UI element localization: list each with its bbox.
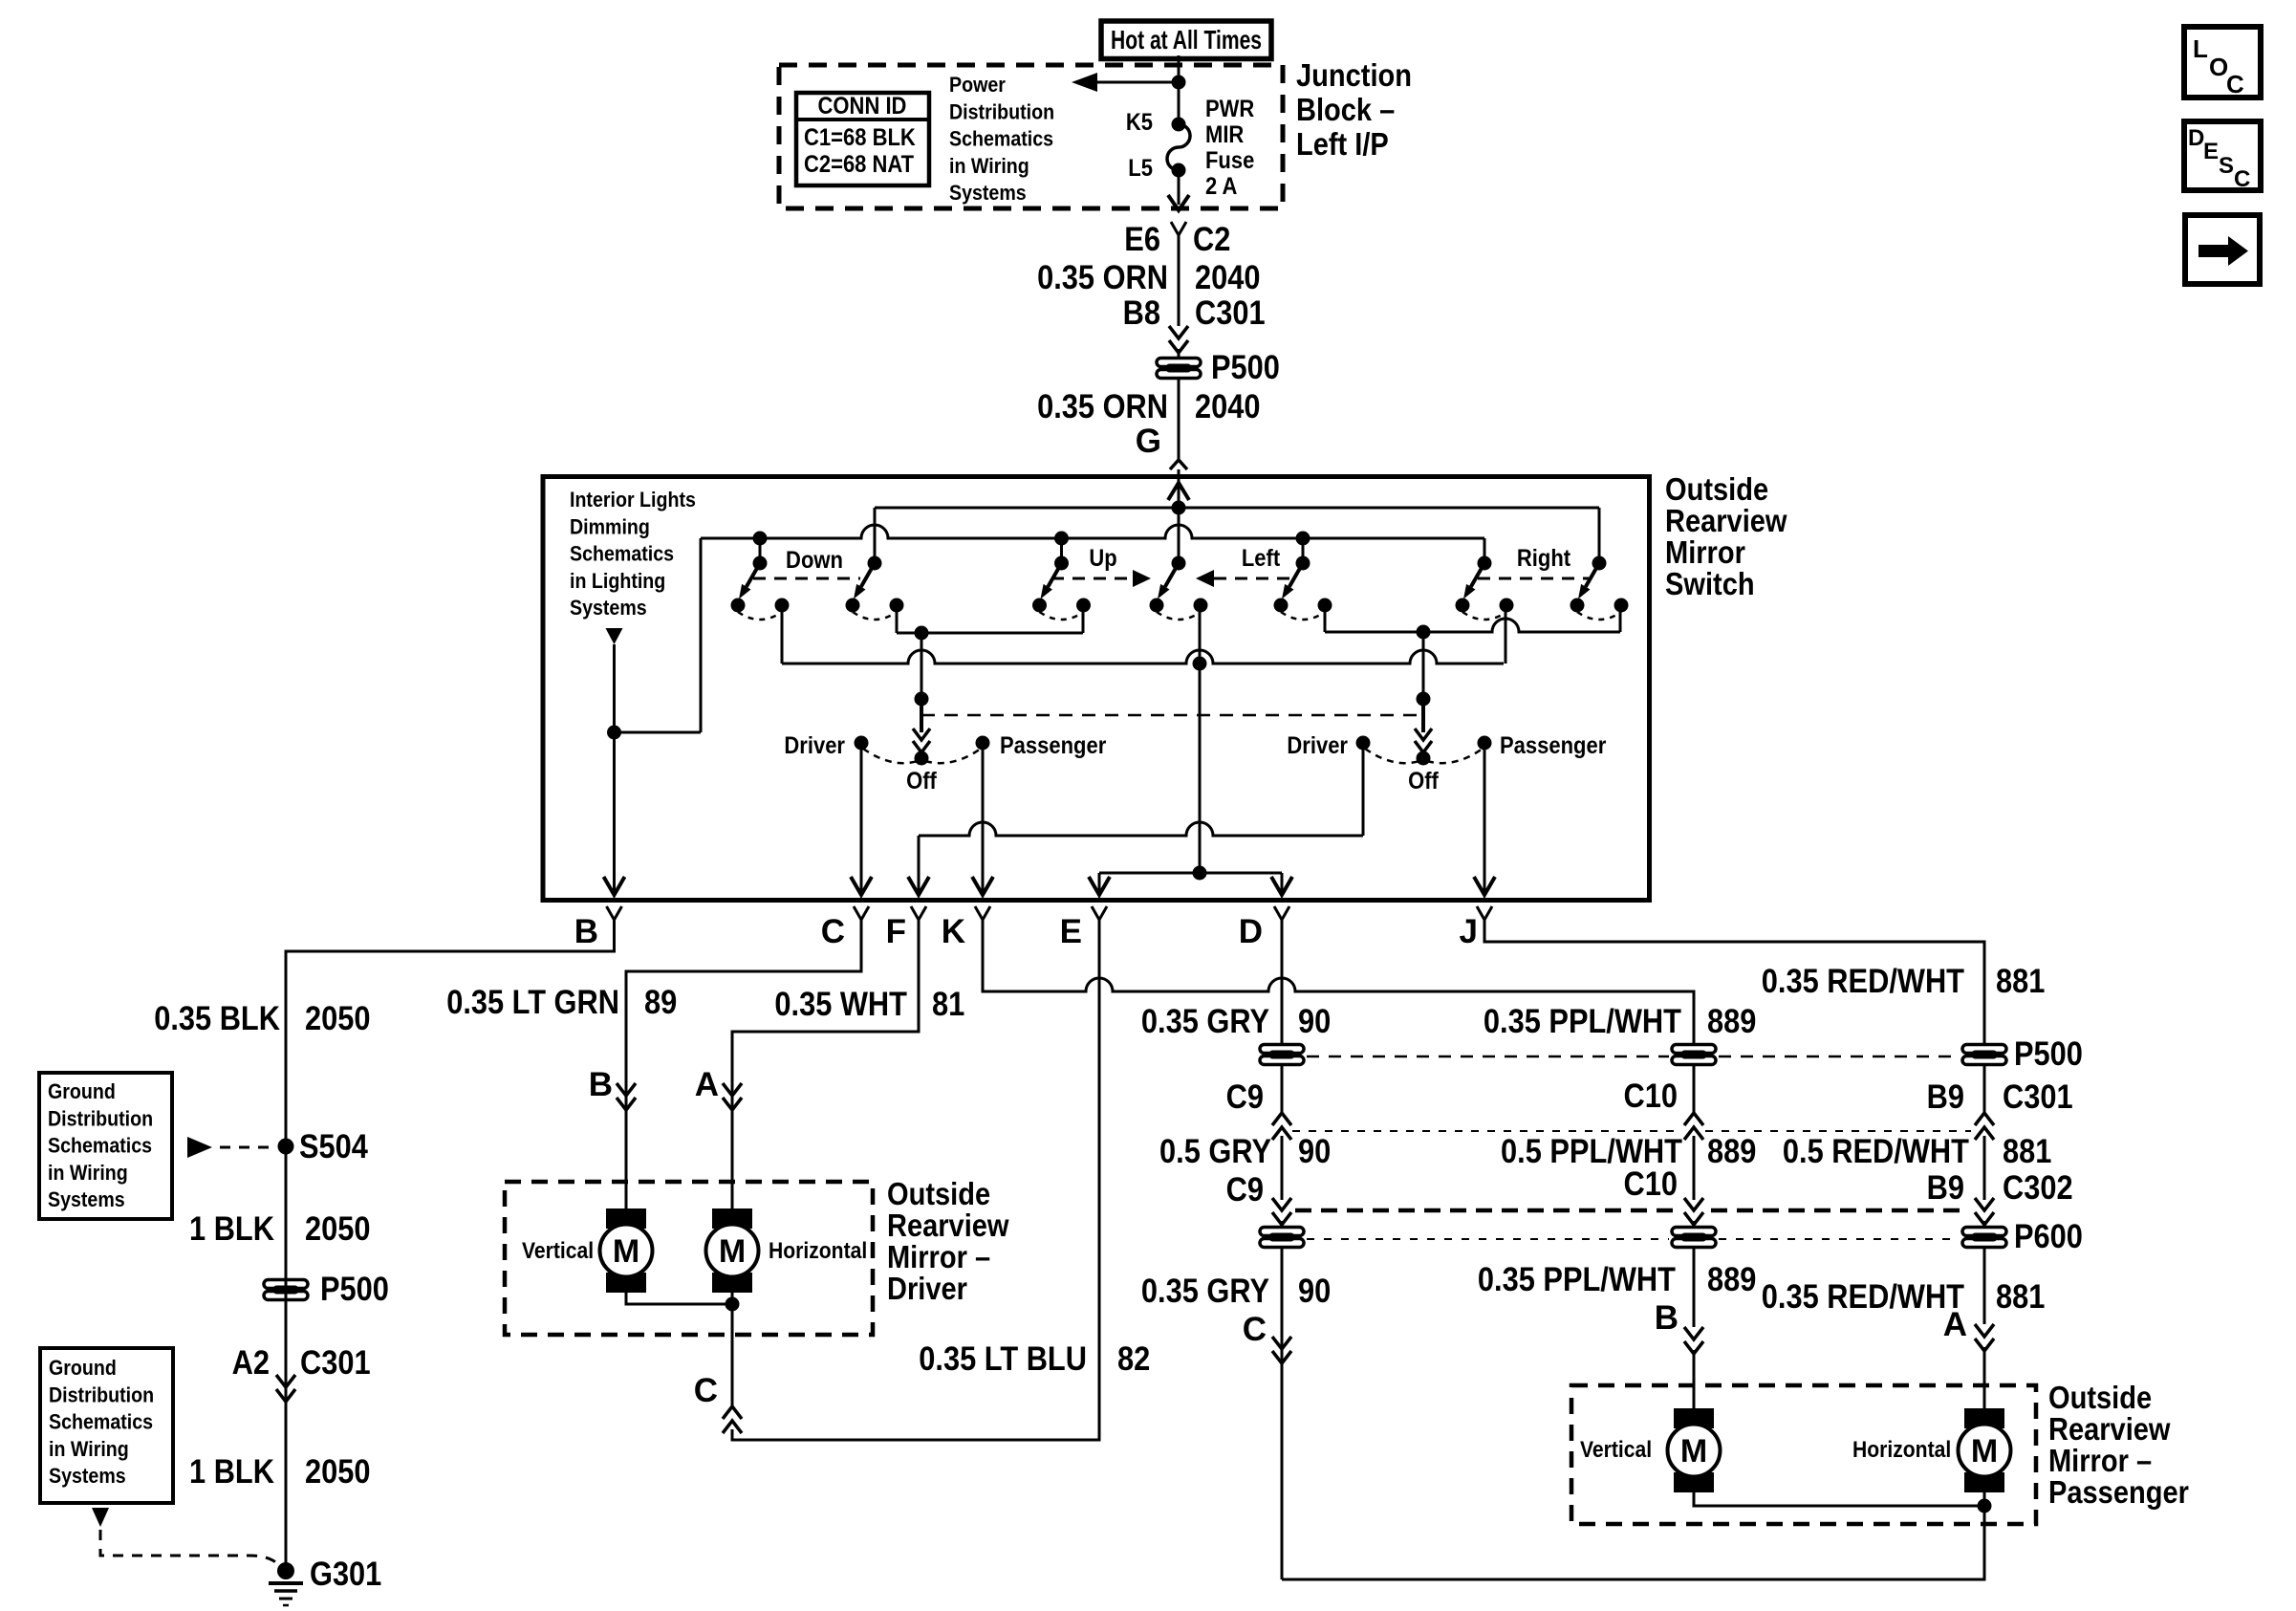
- svg-text:0.35 RED/WHT: 0.35 RED/WHT: [1762, 963, 1964, 1000]
- wire: Passenger contact to terminal K: [982, 743, 985, 896]
- svg-text:C301: C301: [2003, 1078, 2073, 1116]
- wire: upper bus line1: [875, 507, 1599, 510]
- svg-text:Systems: Systems: [949, 181, 1027, 205]
- linkage Up dashed: [1051, 577, 1133, 580]
- svg-text:Outside: Outside: [887, 1176, 990, 1211]
- svg-text:C9: C9: [1226, 1171, 1264, 1208]
- outside rearview mirror passenger dashed box: [1571, 1385, 2036, 1524]
- svg-text:Passenger: Passenger: [2048, 1474, 2189, 1510]
- connector P600 (RED/WHT): [1962, 1228, 2006, 1248]
- connector pin B chevrons: [1684, 1327, 1703, 1339]
- LOC icon box: [2184, 27, 2261, 98]
- arrow at terminal D: [1271, 877, 1292, 895]
- wire: 0.35 WHT 81: [732, 920, 919, 1208]
- svg-text:M: M: [613, 1233, 639, 1270]
- terminal C fork: [854, 906, 869, 920]
- wire: driver motors common: [626, 1293, 732, 1304]
- terminal E fork: [1092, 906, 1107, 920]
- svg-text:Off: Off: [906, 768, 937, 795]
- wire: Left-right right contact drop: [1324, 605, 1327, 632]
- contact Passenger right selector: [1478, 736, 1492, 751]
- wire: Passenger contact to terminal J: [1484, 743, 1486, 896]
- svg-text:Hot at All Times: Hot at All Times: [1111, 25, 1262, 54]
- switch blade center: [1150, 556, 1208, 620]
- svg-text:90: 90: [1298, 1273, 1331, 1310]
- svg-text:881: 881: [1996, 1278, 2045, 1316]
- svg-text:Junction: Junction: [1296, 57, 1412, 93]
- svg-text:Off: Off: [1408, 768, 1439, 795]
- wire: line2 riser to dimming feed: [700, 538, 703, 732]
- svg-text:Distribution: Distribution: [48, 1106, 153, 1130]
- wire: line1 to Right-right blade: [1598, 508, 1601, 563]
- svg-text:Down: Down: [786, 547, 843, 574]
- node: right selector feed tap: [1417, 625, 1431, 640]
- svg-text:Fuse: Fuse: [1205, 147, 1254, 174]
- svg-text:Interior Lights: Interior Lights: [570, 488, 696, 512]
- svg-text:in Lighting: in Lighting: [570, 569, 665, 593]
- svg-text:Block –: Block –: [1296, 92, 1395, 127]
- svg-text:Distribution: Distribution: [949, 99, 1054, 123]
- Hot at All Times box: [1101, 21, 1271, 59]
- svg-text:P500: P500: [1211, 349, 1280, 386]
- wire: [1693, 1136, 1696, 1200]
- svg-text:889: 889: [1707, 1003, 1756, 1040]
- connector C9 chevrons down: [1272, 1198, 1291, 1210]
- svg-text:PWR: PWR: [1205, 96, 1254, 122]
- wire: fuse output: [1178, 170, 1180, 205]
- svg-text:Schematics: Schematics: [49, 1410, 153, 1434]
- wire: junction to riser: [615, 731, 702, 734]
- svg-text:A: A: [1943, 1306, 1967, 1343]
- dashed connector row C302: [1295, 1208, 1678, 1213]
- svg-text:Vertical: Vertical: [522, 1238, 594, 1264]
- connector B9/C301 chevrons up: [1975, 1113, 1994, 1125]
- svg-text:0.35 LT GRN: 0.35 LT GRN: [446, 984, 619, 1021]
- arrow: left selector knob: [920, 699, 923, 732]
- svg-text:Power: Power: [949, 73, 1006, 97]
- terminal J fork: [1477, 906, 1492, 920]
- connector C10 chevrons up: [1684, 1113, 1703, 1125]
- svg-text:P500: P500: [2014, 1035, 2083, 1073]
- svg-text:0.35 BLK: 0.35 BLK: [154, 1000, 280, 1037]
- wire: [1983, 1221, 1986, 1228]
- junction block dashed box: [779, 65, 1283, 208]
- connector pin A chevrons: [723, 1083, 742, 1096]
- svg-text:Schematics: Schematics: [48, 1134, 152, 1158]
- node on line3b: [915, 626, 929, 641]
- svg-text:Ground: Ground: [48, 1079, 116, 1103]
- svg-text:Rearview: Rearview: [1665, 503, 1787, 538]
- ground G301: [277, 1562, 294, 1579]
- connector C9 chevrons up: [1272, 1113, 1291, 1125]
- wire: dimming to terminal B: [613, 644, 616, 896]
- wire: line2 to Right-left blade: [1484, 538, 1486, 563]
- svg-text:0.35 LT BLU: 0.35 LT BLU: [919, 1340, 1087, 1378]
- wire: [1281, 1136, 1284, 1200]
- ground distribution note box (upper): [39, 1073, 172, 1219]
- wire: 0.35 LT GRN 89: [626, 920, 861, 1208]
- svg-text:Systems: Systems: [48, 1187, 125, 1211]
- motor M vertical (driver): [600, 1208, 653, 1293]
- svg-text:Systems: Systems: [49, 1464, 126, 1488]
- svg-text:Horizontal: Horizontal: [1852, 1437, 1951, 1463]
- wire: Driver contact to terminal C: [860, 743, 863, 896]
- dashed connector row P500: [1307, 1056, 1669, 1058]
- wire: 0.35 LT BLU 82: [732, 920, 1099, 1440]
- selector arc left: [1365, 749, 1419, 763]
- wire: center-right contact to line5: [1199, 605, 1202, 873]
- wire: 0.35 PPL/WHT to motor: [1693, 1248, 1696, 1327]
- switch blade Left-right: [1274, 556, 1332, 620]
- arrow: right selector knob: [1421, 699, 1425, 732]
- connector P500 pass-through (ground wire): [264, 1280, 308, 1300]
- svg-text:C: C: [2226, 70, 2244, 98]
- svg-text:A2: A2: [232, 1344, 270, 1382]
- contact Passenger left selector: [976, 736, 990, 751]
- wire: passenger motors common: [1694, 1492, 1984, 1506]
- terminal B fork: [607, 906, 622, 920]
- svg-text:C301: C301: [1195, 294, 1266, 332]
- wire: to terminal D: [1281, 873, 1284, 896]
- wire: right Driver drop: [1362, 743, 1365, 836]
- svg-text:Driver: Driver: [784, 732, 845, 759]
- svg-text:82: 82: [1117, 1340, 1150, 1378]
- wire: [1281, 1221, 1284, 1228]
- connector P600 (PPL/WHT): [1672, 1228, 1716, 1248]
- wire: Down-right right contact drop: [896, 605, 899, 633]
- ground distribution note box (lower): [40, 1348, 173, 1503]
- wire: drop to terminal F: [918, 836, 921, 896]
- wire: 0.35 GRY 90 to passenger mirror: [1281, 1248, 1284, 1579]
- linkage Down dashed: [753, 577, 860, 580]
- linkage arrow left: [1196, 570, 1214, 587]
- svg-text:C302: C302: [2003, 1169, 2073, 1207]
- svg-text:0.35 PPL/WHT: 0.35 PPL/WHT: [1478, 1261, 1676, 1298]
- svg-text:C10: C10: [1624, 1165, 1679, 1203]
- svg-text:B8: B8: [1123, 294, 1160, 332]
- svg-text:0.35 WHT: 0.35 WHT: [774, 986, 907, 1023]
- wire: 0.35 RED/WHT to motor: [1983, 1248, 1986, 1324]
- connector pin G fork: [1170, 460, 1187, 469]
- node: driver motors common: [726, 1297, 740, 1312]
- svg-text:Schematics: Schematics: [570, 542, 674, 566]
- svg-text:L5: L5: [1128, 155, 1153, 182]
- svg-text:889: 889: [1707, 1261, 1756, 1298]
- svg-text:F: F: [886, 913, 906, 950]
- node: dimming junction: [607, 726, 621, 740]
- svg-text:889: 889: [1707, 1133, 1756, 1170]
- connector pin C chevrons: [723, 1406, 742, 1419]
- wire: passenger mirror return: [1282, 1506, 1984, 1579]
- svg-text:C9: C9: [1226, 1078, 1264, 1116]
- svg-text:0.35 PPL/WHT: 0.35 PPL/WHT: [1484, 1003, 1681, 1040]
- selector arc right: [1427, 749, 1483, 763]
- connector C10 chevrons down: [1684, 1198, 1703, 1210]
- wire: right Driver to terminal F: [919, 822, 1363, 836]
- contact Off right selector: [1417, 751, 1431, 766]
- connector P500 (GRY): [1260, 1045, 1304, 1065]
- wire: Down-left right contact drop: [781, 605, 784, 664]
- svg-text:B: B: [1655, 1299, 1679, 1337]
- linkage Right dashed: [1478, 577, 1589, 580]
- node: line5 center tap: [1193, 866, 1207, 881]
- svg-text:G301: G301: [310, 1556, 381, 1593]
- svg-text:J: J: [1460, 913, 1478, 950]
- svg-text:L: L: [2193, 34, 2208, 63]
- arrow glyph: [2199, 236, 2248, 266]
- svg-text:2040: 2040: [1195, 259, 1261, 296]
- svg-text:C: C: [2234, 166, 2250, 192]
- arrow at terminal E: [1089, 877, 1110, 895]
- selector linkage dashed: [921, 714, 1423, 717]
- svg-text:C: C: [1243, 1311, 1267, 1348]
- arrow at terminal C: [851, 877, 872, 895]
- svg-text:G: G: [1136, 423, 1161, 460]
- svg-text:C2=68 NAT: C2=68 NAT: [804, 151, 914, 178]
- svg-text:E: E: [1060, 913, 1082, 950]
- wire to horizontal motor passenger: [1983, 1347, 1986, 1408]
- svg-text:P500: P500: [320, 1271, 389, 1308]
- svg-text:C2: C2: [1193, 221, 1230, 258]
- svg-text:89: 89: [644, 984, 677, 1021]
- svg-text:in Wiring: in Wiring: [949, 154, 1029, 178]
- wire: to terminal E: [1098, 873, 1101, 896]
- connector B9/C302 chevrons down: [1975, 1198, 1994, 1210]
- wire: 0.35 ORN 2040: [1178, 235, 1180, 326]
- dashed connector row C301: [1292, 1130, 1682, 1132]
- svg-text:in Wiring: in Wiring: [48, 1161, 128, 1185]
- svg-text:2050: 2050: [305, 1453, 371, 1491]
- pin K5: [1172, 118, 1186, 132]
- svg-text:Schematics: Schematics: [949, 127, 1053, 151]
- connector P500 (RED/WHT): [1962, 1045, 2006, 1065]
- svg-text:Switch: Switch: [1665, 566, 1755, 601]
- pin L5: [1172, 163, 1186, 178]
- svg-text:90: 90: [1298, 1133, 1331, 1170]
- svg-text:0.35 GRY: 0.35 GRY: [1141, 1003, 1269, 1040]
- svg-text:A: A: [695, 1066, 719, 1103]
- node: right selector feed: [1417, 692, 1431, 707]
- svg-text:C10: C10: [1624, 1078, 1679, 1115]
- contact Driver left selector: [855, 736, 869, 751]
- svg-text:S: S: [2219, 153, 2234, 179]
- arrow at terminal F: [908, 877, 929, 895]
- node on line2: [1296, 532, 1310, 546]
- svg-text:CONN ID: CONN ID: [818, 93, 907, 120]
- dashed connector row P600: [1307, 1238, 1669, 1240]
- svg-text:in Wiring: in Wiring: [49, 1437, 129, 1461]
- connector P500 (PPL/WHT): [1672, 1045, 1716, 1065]
- wire: line5: [1099, 872, 1282, 875]
- svg-text:Distribution: Distribution: [49, 1382, 154, 1406]
- wire: [1281, 1065, 1284, 1115]
- arrow at terminal K: [972, 877, 993, 895]
- wire to vertical motor passenger: [1693, 1350, 1696, 1408]
- wire: [1693, 1221, 1696, 1228]
- connector C301 chevrons: [1169, 326, 1188, 338]
- terminal K fork: [975, 906, 990, 920]
- svg-text:0.5 GRY: 0.5 GRY: [1159, 1133, 1271, 1170]
- wire: line4 with hops: [782, 650, 1504, 664]
- arrow at terminal J: [1474, 877, 1495, 895]
- wire: line3b: [897, 632, 1083, 635]
- switch blade Up-left: [1032, 556, 1091, 620]
- svg-text:B: B: [574, 913, 598, 950]
- node: passenger motors common: [1978, 1499, 1992, 1513]
- svg-text:90: 90: [1298, 1003, 1331, 1040]
- svg-text:Vertical: Vertical: [1580, 1437, 1652, 1463]
- svg-text:Mirror –: Mirror –: [2048, 1443, 2152, 1478]
- svg-text:M: M: [1971, 1433, 1998, 1469]
- svg-text:0.35 ORN: 0.35 ORN: [1037, 259, 1168, 296]
- contact Driver right selector: [1356, 736, 1371, 751]
- node: line4 joins center-right contact wire: [1193, 657, 1207, 671]
- wire: [1983, 1136, 1986, 1200]
- connector C301 chevrons (ground wire): [276, 1375, 295, 1387]
- switch blade Down-right: [846, 556, 904, 620]
- svg-text:2050: 2050: [305, 1000, 371, 1037]
- svg-text:Horizontal: Horizontal: [769, 1238, 867, 1264]
- motor M vertical (passenger): [1668, 1408, 1721, 1492]
- outside rearview mirror switch box: [543, 477, 1650, 901]
- svg-text:K: K: [942, 913, 965, 950]
- svg-text:81: 81: [932, 986, 964, 1023]
- wire: Up-left right contact riser: [1082, 605, 1085, 633]
- svg-text:Systems: Systems: [570, 596, 647, 620]
- switch blade Down-left: [731, 556, 790, 620]
- svg-text:0.5 RED/WHT: 0.5 RED/WHT: [1783, 1133, 1969, 1170]
- connector P600 (GRY): [1260, 1228, 1304, 1248]
- wire: right selector feed: [1422, 632, 1425, 699]
- arrow: feed entering switch: [1168, 483, 1189, 500]
- connector pin A chevrons: [1975, 1324, 1994, 1337]
- contact Off left selector: [915, 751, 929, 766]
- svg-text:Dimming: Dimming: [570, 514, 650, 538]
- splice S504: [278, 1139, 294, 1155]
- svg-text:Outside: Outside: [2048, 1380, 2152, 1415]
- connector P500 pass-through: [1157, 359, 1201, 379]
- svg-text:Driver: Driver: [1287, 732, 1348, 759]
- svg-text:M: M: [719, 1233, 746, 1270]
- svg-text:Rearview: Rearview: [887, 1208, 1009, 1243]
- wire: 0.35 PPL/WHT 889 run: [983, 920, 1694, 1044]
- svg-text:Driver: Driver: [887, 1271, 967, 1306]
- svg-text:C: C: [821, 913, 845, 950]
- svg-text:E: E: [2203, 139, 2219, 164]
- wire: Right-left right contact drop: [1505, 605, 1507, 664]
- svg-text:C: C: [694, 1372, 718, 1409]
- svg-text:881: 881: [2003, 1133, 2051, 1170]
- svg-text:B9: B9: [1927, 1078, 1964, 1116]
- svg-text:Passenger: Passenger: [1000, 732, 1107, 759]
- node: junction block bus tap: [1172, 76, 1186, 90]
- selector arc right: [925, 749, 981, 763]
- wire: Right-right right contact riser: [1619, 605, 1622, 632]
- svg-text:M: M: [1680, 1433, 1707, 1469]
- svg-text:0.35 GRY: 0.35 GRY: [1141, 1273, 1269, 1310]
- svg-text:Mirror: Mirror: [1665, 534, 1745, 570]
- svg-text:C1=68 BLK: C1=68 BLK: [804, 124, 916, 151]
- next-page arrow icon box: [2185, 215, 2260, 284]
- svg-text:Ground: Ground: [49, 1356, 117, 1380]
- wire: battery feed into fuse: [1178, 55, 1180, 124]
- svg-text:2050: 2050: [305, 1210, 371, 1248]
- svg-text:Outside: Outside: [1665, 471, 1768, 507]
- arrow at terminal B: [604, 877, 625, 895]
- node on line2: [1054, 532, 1069, 546]
- svg-text:0.35 RED/WHT: 0.35 RED/WHT: [1762, 1278, 1964, 1316]
- switch blade Right-left: [1456, 556, 1514, 620]
- linkage Left dashed: [1214, 577, 1292, 580]
- svg-text:2 A: 2 A: [1205, 173, 1237, 200]
- dashed ref to G301: [92, 1508, 109, 1527]
- svg-text:2040: 2040: [1195, 388, 1261, 425]
- outside rearview mirror driver dashed box: [505, 1182, 873, 1335]
- svg-text:D: D: [1239, 913, 1263, 950]
- dashed ref arrow to S504: [187, 1137, 212, 1158]
- wire: left selector feed: [921, 633, 923, 699]
- wire: line3 with hop: [1325, 619, 1620, 632]
- wire: 0.35 GRY 90 column: [1281, 920, 1284, 1044]
- connector C2 fork: [1171, 222, 1186, 235]
- wire: arrow to power distribution: [1095, 81, 1179, 84]
- svg-text:Up: Up: [1089, 545, 1116, 572]
- svg-text:0.35 ORN: 0.35 ORN: [1037, 388, 1168, 425]
- svg-text:S504: S504: [299, 1128, 368, 1165]
- svg-text:E6: E6: [1124, 221, 1160, 258]
- arrow: wire exits junction block: [1168, 195, 1189, 210]
- svg-text:Mirror –: Mirror –: [887, 1239, 990, 1274]
- node: feed joins line1: [1172, 501, 1186, 515]
- terminal F fork: [911, 906, 926, 920]
- svg-text:B: B: [589, 1066, 613, 1103]
- svg-text:MIR: MIR: [1205, 121, 1244, 148]
- wire into switch: [1178, 469, 1180, 508]
- terminal D fork: [1274, 906, 1289, 920]
- linkage arrow right: [1133, 570, 1151, 587]
- node on line2: [753, 532, 768, 546]
- wire: [1983, 1065, 1986, 1115]
- svg-text:1 BLK: 1 BLK: [189, 1453, 274, 1491]
- wire: common to pin C: [731, 1304, 734, 1406]
- dimming feed triangle: [606, 628, 623, 644]
- svg-text:881: 881: [1996, 963, 2045, 1000]
- switch blade Right-right: [1570, 556, 1629, 620]
- wire: 0.35 RED/WHT 881 run: [1484, 920, 1984, 1044]
- motor M horizontal (passenger): [1959, 1408, 2011, 1492]
- wire: [1178, 349, 1180, 358]
- svg-text:Passenger: Passenger: [1500, 732, 1607, 759]
- svg-text:1 BLK: 1 BLK: [189, 1210, 274, 1248]
- wire: feed to center blade: [1178, 508, 1180, 563]
- wire: lower bus line2 with hops: [701, 525, 1484, 538]
- svg-text:D: D: [2188, 125, 2204, 151]
- svg-text:P600: P600: [2014, 1218, 2083, 1255]
- svg-text:Left: Left: [1242, 545, 1281, 572]
- CONN ID box: [796, 93, 929, 185]
- wire: line1 to Down-right blade: [874, 508, 877, 563]
- svg-text:Left I/P: Left I/P: [1296, 126, 1389, 162]
- svg-text:Right: Right: [1517, 545, 1571, 572]
- node: left selector feed: [915, 692, 929, 707]
- svg-text:C301: C301: [300, 1344, 371, 1382]
- connector pin C chevrons: [1272, 1337, 1291, 1349]
- svg-text:K5: K5: [1126, 109, 1153, 136]
- connector pin B chevrons: [617, 1083, 636, 1096]
- wire: 0.35 ORN 2040 below P500: [1178, 379, 1180, 459]
- wire: 0.35 BLK 2050: [286, 920, 615, 1571]
- motor M horizontal (driver): [706, 1208, 759, 1293]
